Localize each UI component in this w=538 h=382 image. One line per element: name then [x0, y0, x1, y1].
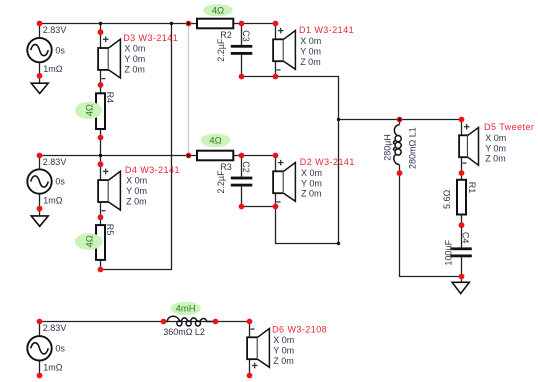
node D4 plus	[98, 161, 104, 167]
svg-text:Z 0m: Z 0m	[485, 154, 506, 164]
node V1 plus	[37, 21, 43, 27]
label D4	[125, 165, 180, 206]
svg-text:280µH: 280µH	[383, 134, 393, 161]
svg-text:X 0m: X 0m	[300, 36, 321, 46]
svg-text:X 0m: X 0m	[485, 133, 506, 143]
wire V2 stems	[39, 156, 41, 217]
voltage source V3	[27, 323, 66, 373]
svg-text:4Ω: 4Ω	[84, 235, 95, 247]
svg-text:Y 0m: Y 0m	[300, 46, 321, 56]
node C3 bottom	[239, 74, 245, 80]
svg-text:0s: 0s	[55, 177, 65, 187]
capacitor C2	[216, 161, 252, 193]
capacitor C4	[443, 232, 471, 266]
svg-text:360mΩ L2: 360mΩ L2	[163, 327, 205, 337]
wire V1 stems	[39, 24, 41, 84]
wire C4 to ground	[461, 257, 463, 282]
svg-text:1mΩ: 1mΩ	[43, 196, 63, 206]
node C2 bottom	[239, 204, 245, 210]
value R3 4ohm	[201, 134, 231, 148]
svg-text:Y 0m: Y 0m	[273, 346, 294, 356]
node V2 minus	[37, 206, 43, 212]
node D6 plus bottom	[247, 373, 253, 379]
speaker D4	[98, 169, 120, 211]
label D6	[272, 325, 327, 366]
wire L1 return	[400, 173, 462, 276]
node R5 bottom	[98, 267, 104, 273]
wire mid bus	[40, 155, 276, 157]
label D3	[123, 33, 178, 74]
wire top section return	[242, 77, 339, 244]
wire D4 branch	[100, 156, 102, 226]
svg-text:X 0m: X 0m	[126, 176, 147, 186]
svg-text:Z 0m: Z 0m	[300, 57, 321, 67]
wire tweeter feed	[339, 119, 462, 121]
node L1 top	[397, 117, 403, 123]
svg-text:280mΩ L1: 280mΩ L1	[408, 127, 418, 169]
node D5 minus	[459, 170, 465, 176]
ground V2	[31, 216, 48, 226]
node R2 left	[186, 21, 192, 27]
svg-text:C2: C2	[241, 161, 251, 173]
speaker D1	[273, 28, 295, 70]
inductor L1	[383, 120, 418, 174]
wire bottom bus	[40, 321, 250, 323]
node D3 plus	[98, 29, 104, 35]
svg-text:C4: C4	[461, 232, 471, 244]
label D5	[484, 122, 534, 164]
svg-text:Z 0m: Z 0m	[301, 189, 322, 199]
value R5 4ohm	[75, 233, 103, 250]
wire R1 to C4	[461, 215, 463, 248]
wire V3 stems	[39, 322, 41, 377]
node D3 minus R4	[98, 82, 104, 88]
svg-text:1mΩ: 1mΩ	[43, 362, 63, 372]
node L2 right	[213, 319, 219, 325]
node D2 plus	[273, 153, 279, 159]
junction top bus D3	[99, 22, 102, 25]
node D5 plus	[459, 117, 465, 123]
svg-text:Z 0m: Z 0m	[126, 196, 147, 206]
wire D2 branch	[275, 156, 277, 207]
wire R5 bottom stub	[100, 260, 102, 270]
node R2 right	[239, 21, 245, 27]
capacitor C3	[216, 30, 252, 62]
voltage source V2	[27, 157, 66, 206]
resistor R3	[197, 151, 233, 172]
node R3 left	[186, 153, 192, 159]
node R3 right	[239, 153, 245, 159]
svg-text:X 0m: X 0m	[273, 335, 294, 345]
junction top bus return	[170, 22, 173, 25]
svg-text:2.83V: 2.83V	[43, 157, 67, 167]
svg-text:X 0m: X 0m	[124, 44, 145, 54]
junction tweeter feed	[337, 118, 340, 121]
ground V1	[31, 83, 48, 93]
wire C2 branch	[241, 156, 243, 207]
speaker D5 tweeter	[459, 124, 478, 165]
svg-text:Z 0m: Z 0m	[124, 64, 145, 74]
label D2	[300, 157, 355, 199]
value R4 4ohm	[75, 102, 102, 119]
speaker D6	[247, 329, 269, 369]
svg-text:2.2µF: 2.2µF	[216, 38, 226, 62]
wire grey link R2 to R3	[188, 24, 190, 156]
svg-text:D1 W3-2141: D1 W3-2141	[299, 25, 354, 35]
wire D3 branch	[100, 24, 102, 94]
svg-text:Y 0m: Y 0m	[485, 143, 506, 153]
node V3 plus	[37, 319, 43, 325]
wire D6 branch	[249, 322, 251, 376]
svg-text:R5: R5	[105, 224, 115, 236]
inductor L2	[163, 316, 215, 337]
wire top bus	[40, 23, 276, 25]
svg-text:4Ω: 4Ω	[84, 104, 95, 116]
node D1 plus	[273, 21, 279, 27]
svg-text:D4 W3-2141: D4 W3-2141	[125, 165, 180, 175]
svg-text:Z 0m: Z 0m	[273, 356, 294, 366]
value L2 4mH	[170, 302, 201, 315]
resistor R5	[96, 224, 115, 260]
node D6 minus top	[247, 319, 253, 325]
node D1 minus	[273, 74, 279, 80]
svg-text:4Ω: 4Ω	[209, 136, 221, 147]
wire C2 bottom	[242, 206, 276, 208]
wire D5 branch	[461, 120, 463, 180]
svg-text:D5 Tweeter: D5 Tweeter	[484, 122, 534, 132]
node C4 ground	[459, 274, 465, 280]
svg-text:R1: R1	[467, 182, 477, 194]
node D4 minus R5	[98, 214, 104, 220]
ground C4	[452, 282, 469, 293]
node V1 minus	[37, 73, 43, 79]
wire return R5 to top bus	[101, 24, 172, 270]
node L2 left	[161, 319, 167, 325]
svg-text:D2 W3-2141: D2 W3-2141	[300, 157, 355, 167]
junction mid bus D4	[99, 154, 102, 157]
node L1 bottom	[397, 170, 403, 176]
svg-text:X 0m: X 0m	[301, 168, 322, 178]
svg-text:4mH: 4mH	[176, 304, 196, 315]
speaker D3	[98, 37, 120, 79]
svg-text:D3 W3-2141: D3 W3-2141	[123, 33, 178, 43]
wire D1 branch	[275, 24, 277, 77]
svg-text:0s: 0s	[55, 344, 65, 354]
junction D2 return corner	[337, 242, 340, 245]
svg-text:Y 0m: Y 0m	[124, 54, 145, 64]
svg-text:0s: 0s	[55, 45, 65, 55]
value R2 4ohm	[203, 4, 233, 16]
svg-text:R4: R4	[105, 92, 115, 104]
svg-text:100µF: 100µF	[443, 239, 453, 265]
svg-text:2.83V: 2.83V	[43, 25, 67, 35]
node R1 C4	[459, 222, 465, 228]
svg-text:4Ω: 4Ω	[212, 6, 224, 17]
svg-text:1mΩ: 1mΩ	[43, 64, 63, 74]
svg-text:R2: R2	[220, 30, 232, 40]
speaker D2	[273, 160, 295, 202]
svg-text:C3: C3	[241, 30, 251, 42]
svg-text:Y 0m: Y 0m	[126, 186, 147, 196]
svg-text:Y 0m: Y 0m	[301, 178, 322, 188]
node V3 minus	[37, 373, 43, 379]
node R4 bottom	[98, 135, 104, 141]
svg-text:2.2µF: 2.2µF	[216, 170, 226, 194]
svg-text:D6 W3-2108: D6 W3-2108	[272, 325, 327, 335]
resistor R4	[96, 92, 115, 129]
node V2 plus	[37, 153, 43, 159]
node D2 minus	[273, 204, 279, 210]
resistor R1	[442, 180, 477, 215]
svg-text:2.83V: 2.83V	[43, 323, 67, 333]
label D1	[299, 25, 354, 67]
wire R4 to mid bus	[100, 129, 102, 156]
resistor R2	[197, 19, 233, 40]
voltage source V1	[27, 25, 66, 74]
svg-text:5.6Ω: 5.6Ω	[442, 189, 452, 209]
wire C3 branch	[241, 24, 243, 77]
wire D2 return	[276, 207, 339, 244]
